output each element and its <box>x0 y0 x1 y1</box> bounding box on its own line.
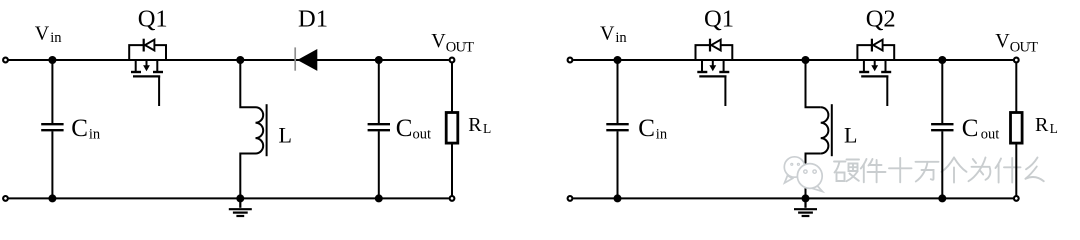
svg-text:L: L <box>279 122 292 147</box>
svg-text:Q1: Q1 <box>704 6 734 33</box>
svg-text:Q1: Q1 <box>138 6 168 33</box>
svg-text:in: in <box>656 126 668 142</box>
svg-text:V: V <box>600 22 615 44</box>
svg-text:R: R <box>1035 114 1049 136</box>
svg-text:C: C <box>638 115 655 142</box>
svg-text:in: in <box>615 30 627 46</box>
svg-text:in: in <box>50 30 62 46</box>
svg-text:in: in <box>89 126 101 142</box>
svg-text:out: out <box>981 126 1000 142</box>
svg-text:C: C <box>71 115 88 142</box>
svg-text:L: L <box>844 122 857 147</box>
svg-text:C: C <box>962 115 979 142</box>
svg-text:L: L <box>483 121 491 136</box>
svg-text:C: C <box>396 115 413 142</box>
svg-text:OUT: OUT <box>1010 39 1038 55</box>
svg-text:OUT: OUT <box>446 39 474 55</box>
svg-text:R: R <box>468 114 482 136</box>
svg-text:Q2: Q2 <box>866 6 896 33</box>
svg-text:V: V <box>995 30 1010 52</box>
svg-text:out: out <box>413 126 432 142</box>
svg-text:L: L <box>1050 121 1058 136</box>
svg-text:V: V <box>431 30 446 52</box>
svg-text:V: V <box>35 22 50 44</box>
svg-text:D1: D1 <box>298 6 328 33</box>
